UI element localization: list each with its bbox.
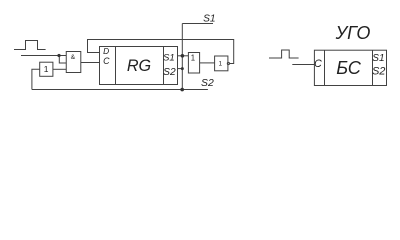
svg-text:1: 1 [191,54,195,63]
svg-text:C: C [103,56,110,66]
svg-text:S1: S1 [163,53,175,64]
svg-text:RG: RG [127,57,151,75]
svg-text:1: 1 [44,64,49,74]
svg-text:S1: S1 [372,53,384,64]
svg-text:УГО: УГО [335,23,371,43]
svg-text:&: & [71,54,76,61]
svg-text:C: C [314,58,322,70]
svg-text:S2: S2 [163,67,176,78]
svg-text:S2: S2 [201,78,214,89]
svg-text:S1: S1 [203,13,215,24]
svg-text:БС: БС [336,58,361,78]
svg-text:S2: S2 [372,66,385,78]
svg-text:1: 1 [218,60,222,67]
svg-text:D: D [103,46,109,56]
